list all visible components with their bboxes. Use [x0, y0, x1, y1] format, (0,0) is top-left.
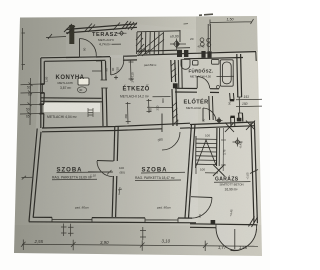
eloter left rot dim [147, 99, 173, 113]
eloter right wall [209, 96, 213, 120]
garage top wall [190, 122, 255, 125]
etkezo/eloter divider wall [171, 60, 173, 126]
right side dim lines 151/150 [236, 99, 262, 106]
szoba divider door leaf + arc [97, 160, 114, 163]
terasz top wall [66, 24, 137, 30]
top-left dim stub [46, 34, 66, 39]
szoba1 left outer wall [29, 129, 37, 222]
konyha bottom wall [41, 97, 102, 100]
stairs risers [137, 32, 164, 54]
garage door swing light area [216, 225, 257, 250]
right wall black pillar [237, 118, 242, 122]
szoba1/szoba2 divider [113, 126, 116, 161]
konyha top wall [41, 57, 102, 58]
eloter door black leaf [173, 83, 178, 88]
washed out blur band in kamra [44, 103, 100, 112]
konyha sink [78, 78, 89, 85]
8/8 ticks under szoba1 window [61, 224, 74, 237]
furdo door leaf + arc [196, 76, 198, 88]
szoba1 window [52, 217, 92, 222]
szoba2 window [145, 218, 178, 223]
kamra window [41, 104, 43, 114]
konyha left outer wall [40, 58, 42, 128]
interior stairs wedge [197, 140, 217, 166]
szoba1 left dim arrow [22, 176, 34, 180]
konyha door ticks [101, 80, 108, 88]
house bottom wall [29, 222, 196, 223]
furdo left wall [178, 60, 182, 88]
door handle circle [217, 86, 220, 89]
north wall right corner stub [255, 52, 257, 61]
garage right wall [251, 123, 254, 223]
top right dim line 1,50 [210, 19, 254, 26]
left dim line [29, 78, 32, 125]
stairs diagonals [138, 33, 164, 54]
terasz left thick wall bar [69, 25, 74, 44]
garage level mark [233, 138, 243, 147]
garage wall break slashes [249, 170, 259, 228]
etkezo door B leaf + arc [109, 57, 112, 75]
konyha counter stub [92, 70, 102, 72]
right wall window [237, 97, 243, 113]
stairs bottom 100 dim [196, 163, 218, 174]
two circles vents [200, 38, 204, 42]
chimney shaft above furdo [208, 24, 210, 51]
house right wall [237, 54, 239, 122]
interior light areas [30, 54, 198, 224]
garage bottom wall [190, 224, 258, 225]
washbasin [181, 60, 190, 70]
eloter door arc bottom [203, 108, 216, 121]
north wall of house (terasz bottom / etkezo top / furdo top) [66, 50, 256, 57]
bottom main dim line [22, 244, 258, 246]
garage top wall X marks [225, 121, 255, 133]
small level diamond left of stairs [117, 31, 127, 35]
etkezo rot dim line [129, 60, 134, 81]
boiler [212, 60, 220, 65]
interior stairs risers [196, 139, 217, 165]
szoba2 door leaf + arc [161, 114, 163, 133]
garage vertical dim [222, 128, 224, 171]
eloter small level circle [217, 119, 221, 123]
szoba top wall long [42, 123, 190, 128]
konyha/etkezo divider wall [102, 61, 104, 126]
stairs bottom X mark [213, 165, 225, 177]
top wall dense hatch [122, 21, 137, 30]
divider hatch [171, 62, 178, 124]
konyha window [42, 84, 44, 93]
eloter top wall [175, 87, 219, 90]
garage door arcs [216, 228, 240, 250]
40 ticks right of szoba2 window [140, 227, 146, 240]
interior stairs right wall [216, 128, 219, 166]
garage inner door stub + arc [191, 196, 212, 199]
terasz door A leaf + arc [79, 39, 81, 58]
szoba2 right wall [185, 124, 192, 218]
stair hall wall with door [230, 93, 235, 127]
top-left corner hatch [64, 24, 75, 34]
wc [193, 61, 199, 66]
bathtub [220, 60, 233, 86]
level diamond terrace [170, 39, 186, 50]
stair hall door jambs black [230, 100, 235, 117]
exterior stairs top [137, 31, 180, 32]
stairs left hatch [136, 33, 149, 56]
left paper edge ticks [22, 28, 26, 70]
